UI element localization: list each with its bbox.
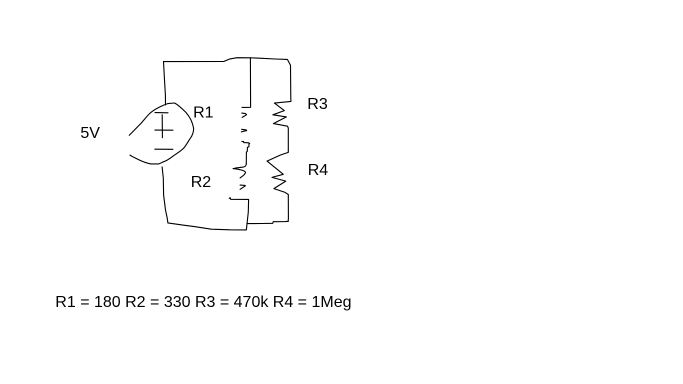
svg-text:R1 = 180 R2 = 330 R3 = 470k R4: R1 = 180 R2 = 330 R3 = 470k R4 = 1Meg <box>55 294 351 311</box>
svg-text:R2: R2 <box>191 174 212 191</box>
svg-text:5V: 5V <box>80 125 100 142</box>
svg-text:R1: R1 <box>193 104 214 121</box>
svg-text:R4: R4 <box>308 162 329 179</box>
svg-text:R3: R3 <box>307 96 328 113</box>
